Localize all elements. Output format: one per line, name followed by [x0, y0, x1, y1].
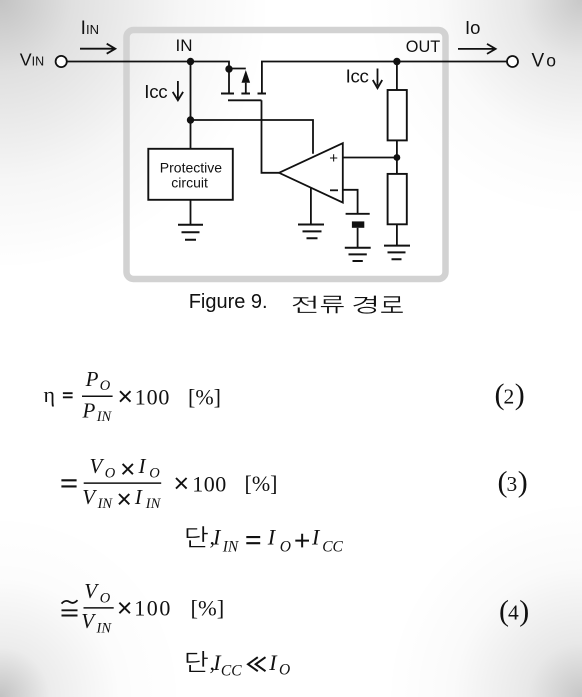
svg-text:V: V [82, 485, 97, 509]
svg-text:3: 3 [507, 472, 518, 496]
node Icc junction [187, 116, 194, 123]
fraction bar (2) [82, 395, 113, 397]
svg-text:IN: IN [97, 496, 114, 512]
much-less-than symbol [248, 657, 266, 671]
svg-text:): ) [519, 595, 529, 628]
wire op-amp to ground [310, 188, 312, 225]
times sign outer (3) [176, 478, 187, 489]
hangul 경 [353, 296, 376, 314]
svg-text:100: 100 [192, 472, 227, 497]
wire gate to op-amp output [262, 100, 280, 173]
svg-text:V: V [81, 609, 96, 633]
wire node to op-amp supply [191, 120, 314, 154]
terminal VIN [56, 56, 67, 67]
svg-text:IN: IN [222, 538, 240, 555]
svg-text:Icc: Icc [346, 66, 369, 87]
svg-text:[%]: [%] [191, 596, 225, 621]
svg-text:CC: CC [322, 539, 343, 556]
svg-text:Icc: Icc [144, 81, 167, 102]
IC body (gray rounded box) [127, 30, 446, 279]
svg-text:O: O [149, 466, 160, 482]
svg-text:100: 100 [135, 385, 170, 410]
svg-text:CC: CC [221, 662, 242, 679]
svg-text:IN: IN [96, 409, 113, 425]
svg-text:Protective: Protective [160, 159, 222, 175]
hangul 전 [293, 296, 317, 313]
svg-text:IN: IN [176, 36, 193, 55]
svg-text:V: V [20, 49, 32, 69]
equals sign (2) [63, 393, 73, 397]
svg-text:): ) [518, 466, 528, 499]
svg-text:Io: Io [465, 17, 480, 38]
op-amp U1 [279, 143, 343, 202]
svg-text:OUT: OUT [406, 38, 440, 56]
svg-text:V: V [532, 50, 545, 71]
hangul 단1 [187, 526, 208, 547]
svg-text:+: + [329, 150, 338, 167]
svg-text:I: I [138, 454, 147, 478]
svg-text:IN: IN [145, 496, 162, 512]
svg-text:4: 4 [508, 601, 519, 625]
times sign num (3) [123, 464, 133, 474]
hangul 로 [381, 296, 403, 313]
svg-text:I: I [311, 525, 321, 550]
wire OUT down through divider [396, 62, 398, 246]
svg-text:O: O [100, 378, 111, 394]
equals sign (3) [61, 480, 76, 486]
svg-text:): ) [515, 378, 525, 411]
caption Figure 9 [189, 291, 268, 313]
node OUT [393, 58, 400, 65]
svg-text:I: I [212, 525, 222, 550]
terminal Vo [507, 56, 518, 67]
arrow Io [458, 44, 496, 54]
svg-text:I: I [268, 650, 278, 675]
wire Q1 drain to OUT rail [262, 62, 507, 93]
times sign (2) [120, 391, 131, 402]
svg-text:I: I [134, 485, 143, 509]
svg-text:2: 2 [504, 385, 515, 409]
wire protective circuit to ground [190, 200, 192, 225]
formula (2) eta = Po/Pin x 100 [%] [44, 382, 56, 407]
svg-text:O: O [105, 466, 116, 482]
wire IN down to protective circuit [190, 62, 192, 149]
approx-equal sign of (4) [62, 600, 78, 615]
svg-text:I: I [267, 525, 277, 550]
node feedback [394, 154, 401, 161]
arrow Icc right (down) [373, 69, 382, 89]
formula (4) approx Vo/Vin x 100 [%] [81, 579, 112, 637]
op-amp minus sign [330, 189, 338, 191]
svg-text:[%]: [%] [245, 471, 278, 496]
svg-text:O: O [280, 539, 291, 556]
resistor R2 [388, 174, 407, 224]
condition line 2: dan, Icc << Io [210, 650, 291, 679]
ground G3 [298, 225, 324, 239]
svg-text:Figure 9.: Figure 9. [189, 291, 268, 313]
svg-text:circuit: circuit [171, 175, 208, 191]
equals sign cond1 [246, 537, 260, 543]
protective circuit block [148, 149, 233, 200]
label VIN [20, 17, 556, 191]
ground G1 [178, 225, 203, 240]
svg-text:O: O [100, 590, 111, 606]
svg-text:V: V [90, 454, 105, 478]
transistor Q1 (PMOS pass element) [225, 65, 232, 72]
svg-text:P: P [85, 367, 99, 391]
svg-text:100: 100 [134, 596, 172, 621]
node IN [187, 58, 194, 65]
svg-text:V: V [84, 579, 99, 603]
arrow IIN [80, 44, 115, 54]
svg-text:o: o [546, 50, 556, 70]
hangul 단2 [187, 651, 208, 672]
arrow Icc left (down) [173, 81, 183, 100]
fraction bar (3) [84, 482, 162, 484]
Vref (voltage reference) [346, 213, 370, 215]
plus sign cond1 [295, 534, 309, 548]
svg-text:P: P [82, 399, 96, 423]
svg-text:O: O [279, 662, 290, 679]
svg-text:IN: IN [86, 22, 99, 37]
hangul 류 [321, 296, 344, 314]
ground G2 [345, 248, 371, 261]
condition line 1: dan, Iin = Io + Icc [210, 525, 240, 556]
fraction bar (4) [84, 607, 114, 609]
wire op-amp plus input [343, 157, 397, 159]
svg-text:η: η [44, 382, 56, 407]
resistor R1 [388, 90, 407, 140]
svg-text:[%]: [%] [188, 384, 221, 409]
times sign den (3) [119, 494, 129, 504]
times sign (4) [119, 603, 130, 614]
svg-text:IN: IN [96, 620, 113, 636]
ground G4 [384, 246, 410, 260]
svg-text:IN: IN [32, 54, 44, 68]
wire op-amp minus input to Vref [343, 190, 358, 213]
formula (3) = VoIo/VinIin x 100 [%] [0, 0, 1, 1]
wire VIN to IN rail [67, 62, 229, 70]
